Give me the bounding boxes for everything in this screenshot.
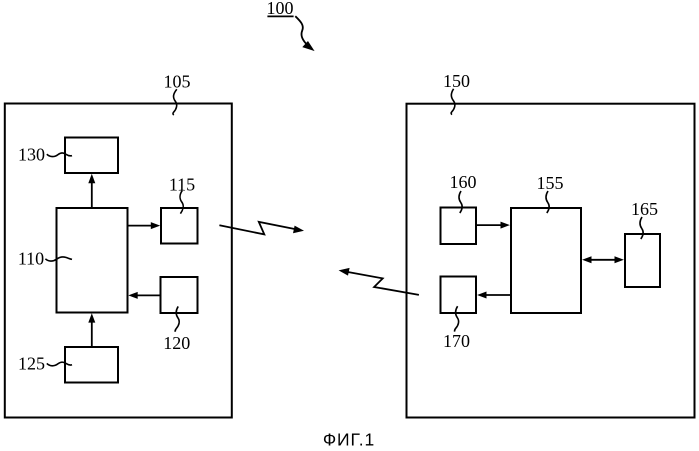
svg-text:165: 165 — [631, 199, 658, 219]
block 170 — [441, 277, 477, 314]
svg-text:150: 150 — [443, 71, 470, 91]
arrow 110 to 130 — [88, 174, 95, 208]
block 115 — [161, 208, 198, 244]
block 160 — [441, 208, 477, 245]
svg-text:100: 100 — [267, 0, 294, 18]
leader squiggle 160 — [459, 191, 462, 213]
block 130 — [65, 138, 118, 174]
double arrow 155 to 165 — [582, 256, 624, 263]
block 165 — [625, 234, 660, 287]
leader tilde 125 — [47, 362, 72, 366]
device box 105 (left outer box) — [5, 104, 232, 418]
leader squiggle 165 — [640, 217, 643, 239]
block 120 — [161, 277, 198, 313]
svg-text:170: 170 — [443, 331, 470, 351]
wireless link arrow left-to-right (zigzag) — [219, 222, 304, 235]
block 110 — [57, 208, 128, 313]
block 125 — [65, 347, 118, 383]
block 155 — [511, 208, 581, 313]
device box 150 (right outer box) — [407, 104, 695, 418]
arrow 160 to 155 — [476, 222, 510, 229]
leader squiggle 115 — [180, 191, 183, 214]
leader squiggle 120 — [175, 306, 179, 331]
svg-text:130: 130 — [18, 144, 45, 164]
leader squiggle 170 — [455, 306, 459, 331]
leader arrow from 100 (squiggly) — [295, 16, 313, 50]
wireless link arrow right-to-left (zigzag) — [339, 268, 419, 295]
leader tilde 130 — [47, 153, 72, 157]
arrow 120 to 110 — [128, 292, 160, 299]
leader squiggle 150 — [451, 89, 455, 115]
leader squiggle 105 — [173, 89, 177, 115]
svg-text:105: 105 — [164, 72, 191, 92]
arrow 155 to 170 — [477, 292, 511, 299]
svg-text:110: 110 — [18, 249, 44, 269]
svg-text:120: 120 — [163, 333, 190, 353]
leader tilde 110 — [45, 257, 72, 261]
svg-text:155: 155 — [537, 173, 564, 193]
arrow 110 to 115 — [128, 222, 161, 229]
leader squiggle 155 — [546, 191, 549, 213]
arrow 125 to 110 — [88, 313, 95, 347]
svg-text:125: 125 — [18, 354, 45, 374]
underline of label 100 — [267, 15, 293, 17]
svg-text:160: 160 — [450, 172, 477, 192]
svg-text:ФИГ.1: ФИГ.1 — [323, 430, 375, 450]
